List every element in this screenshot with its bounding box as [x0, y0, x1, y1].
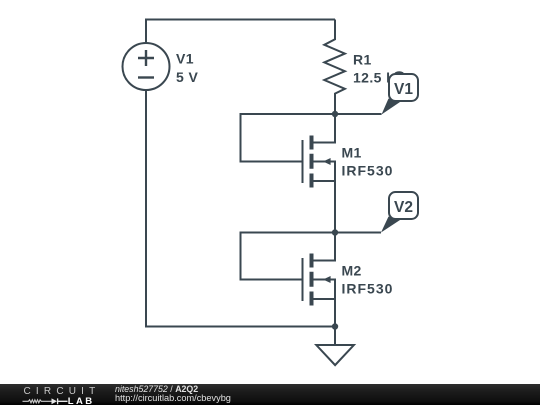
- flag V2: [381, 192, 418, 233]
- junction at M1 source: [332, 229, 338, 235]
- svg-text:5 V: 5 V: [176, 69, 198, 85]
- svg-text:R1: R1: [353, 52, 372, 68]
- wire node V1: [241, 113, 382, 115]
- junction at ground: [332, 323, 338, 329]
- svg-text:http://circuitlab.com/cbevybg: http://circuitlab.com/cbevybg: [115, 393, 231, 403]
- wire bottom: [145, 326, 335, 328]
- svg-text:V1: V1: [394, 81, 413, 98]
- transistor M2: [303, 233, 336, 327]
- wire left upper: [145, 19, 147, 44]
- wire M2 gate loop: [241, 232, 302, 280]
- svg-text:IRF530: IRF530: [342, 163, 394, 179]
- wire M1 gate loop: [241, 113, 302, 162]
- voltage source V1: [123, 43, 170, 90]
- svg-text:V2: V2: [394, 199, 413, 216]
- junction at R1 bottom: [332, 111, 338, 117]
- wire left lower: [145, 90, 147, 328]
- svg-text:V1: V1: [176, 51, 194, 67]
- flag V1: [382, 71, 419, 114]
- resistor R1: [324, 20, 345, 115]
- footer logo zigzag + diode: [23, 400, 52, 403]
- svg-text:M2: M2: [342, 263, 362, 279]
- ground: [316, 327, 354, 366]
- svg-text:M1: M1: [342, 145, 362, 161]
- wire top: [146, 19, 335, 21]
- transistor M1: [303, 114, 336, 233]
- svg-text:LAB: LAB: [68, 396, 95, 405]
- wire node V2: [241, 232, 382, 234]
- svg-text:IRF530: IRF530: [342, 281, 394, 297]
